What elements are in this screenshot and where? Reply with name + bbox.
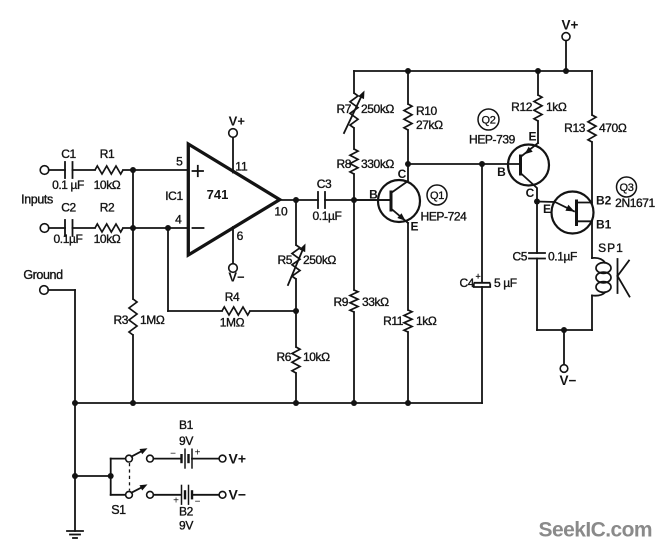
svg-text:B2: B2 [179,505,194,519]
wire bus corner to R13 [591,71,593,115]
wire ground bus bottom [75,402,482,404]
node output junction R5 [293,197,299,203]
svg-text:10: 10 [274,205,288,219]
wire R6 to bus [295,373,297,403]
wire C4 line bottom [481,287,483,403]
wire R4 to R5/R6 node [250,310,296,312]
label Q1 circle [427,185,447,205]
wire R7 to R8 [353,128,355,149]
node bus junction R3 [130,400,136,406]
resistor R6 10k [276,347,330,373]
node junction input1/R3 [130,167,136,173]
svg-text:R2: R2 [100,201,115,215]
svg-text:Q3: Q3 [619,182,633,194]
wire bottom right bus [537,329,592,331]
node bus junction V+ [563,68,569,74]
svg-text:10kΩ: 10kΩ [94,232,121,246]
wire contact2 to B2 [153,494,181,496]
wire B2 to V- terminal [192,494,219,496]
wire op-amp V- pin6 [232,227,234,264]
svg-text:6: 6 [237,229,244,243]
svg-text:C: C [526,186,535,200]
wire R10 to Q1 collector node [407,130,409,164]
svg-text:10kΩ: 10kΩ [303,350,330,364]
svg-text:C: C [398,167,407,181]
svg-text:−: − [195,497,201,508]
svg-text:2N1671: 2N1671 [615,196,655,210]
node bus junction R11 [405,400,411,406]
wire bus to R12 [537,71,539,95]
svg-text:IC1: IC1 [165,189,183,203]
node op-amp V- terminal [229,264,238,273]
wire R2 to op-amp pin4 [123,227,188,229]
capacitor C4 5uF electrolytic [459,272,516,291]
node bus junction R12 [535,68,541,74]
svg-text:741: 741 [207,187,229,202]
transistor Q2 HEP-739 [497,130,549,202]
svg-text:V+: V+ [562,18,579,33]
op-amp minus input symbol [193,227,204,229]
wire B1 down to SP1 [591,221,593,258]
svg-text:SeekIC.com: SeekIC.com [539,519,653,542]
op-amp plus input symbol [193,166,204,176]
svg-text:C2: C2 [61,201,76,215]
speaker SP1 armature [618,259,630,297]
capacitor C3 0.1uF [313,177,342,223]
svg-text:0.1µF: 0.1µF [313,209,342,223]
svg-text:0.1µF: 0.1µF [548,250,577,264]
wire R3 to ground bus [132,335,134,403]
op-amp IC1 741 [188,144,279,255]
speaker SP1 coil [592,241,624,296]
svg-text:1MΩ: 1MΩ [140,313,165,327]
wire feedback down from pin4 node [167,228,169,311]
wire ground vertical [74,290,76,531]
svg-text:11: 11 [235,160,248,174]
svg-text:0.1µF: 0.1µF [54,232,83,246]
wire op-amp V+ pin11 [232,137,234,172]
svg-text:B: B [497,165,506,179]
svg-text:9V: 9V [179,434,193,448]
node bus/R10 junction [405,68,411,74]
resistor R9 33k [333,290,389,312]
svg-text:V−: V− [228,270,245,285]
svg-text:250kΩ: 250kΩ [361,102,394,116]
wire ground to switch [75,475,111,477]
wire ground terminal right [48,289,75,291]
svg-text:5 µF: 5 µF [494,276,517,290]
svg-text:−: − [170,449,176,460]
wire Q1 emitter down to R11 [407,223,409,310]
node R4/R5/R6 junction [293,308,299,314]
svg-text:R12: R12 [511,100,533,114]
switch S1 gang dashed link [129,463,131,491]
svg-text:R6: R6 [276,350,291,364]
resistor R10 27k [404,104,443,132]
node switch feed junction [72,473,78,479]
wire R11 to bus [407,332,409,403]
node C4 tap junction [479,161,485,167]
node Q2 collector junction [534,199,540,205]
wire R8 to base node [353,174,355,200]
svg-text:V−: V− [229,486,247,502]
ground earth symbol [67,531,83,538]
svg-text:C4: C4 [459,276,474,290]
svg-text:250kΩ: 250kΩ [303,253,336,267]
wire C5 to bottom [536,259,538,331]
svg-text:Q2: Q2 [481,115,495,127]
wire op-amp output [280,199,319,201]
resistor R11 1k [383,310,437,332]
node bus junction R9 [351,400,357,406]
switch contact 2 [147,491,154,498]
resistor R4 1M [220,290,250,330]
wire input2 to C2 [49,227,65,229]
svg-text:27kΩ: 27kΩ [416,118,443,132]
battery B1 9V [170,418,201,469]
node battery V- terminal [219,491,226,498]
svg-text:+: + [476,272,481,282]
node V- junction [561,327,567,333]
svg-text:9V: 9V [179,519,193,533]
node switch common junction [108,473,114,479]
label Q2 circle [478,109,499,130]
resistor R8 330k [336,149,394,174]
wire stub to pole1 [111,458,126,460]
wire input1 to C1 [49,169,65,171]
wire C3 to Q1 base [325,199,390,201]
wire stub to pole2 [111,494,126,496]
svg-text:C3: C3 [317,177,332,191]
wire switch common vertical [110,459,112,495]
resistor R13 470 [564,115,627,142]
svg-text:1kΩ: 1kΩ [416,314,437,328]
wire C4 line top [481,164,483,282]
resistor R2 10k [94,201,123,247]
wire top supply bus [354,70,592,72]
wire B1 to V+ terminal [192,458,219,460]
svg-text:1MΩ: 1MΩ [220,316,245,330]
svg-text:C5: C5 [512,250,527,264]
capacitor C2 0.1uF [54,201,83,247]
svg-text:R13: R13 [564,121,586,135]
wire vertical R3 chain top [132,170,134,299]
svg-text:SP1: SP1 [598,241,624,255]
svg-text:V+: V+ [229,114,246,129]
resistor R1 10k [94,147,123,192]
svg-text:10kΩ: 10kΩ [94,178,121,192]
wire Q2 collector node down to C5 [536,202,538,254]
svg-text:R8: R8 [336,157,351,171]
node input 1 terminal [40,166,49,175]
node battery V+ terminal [219,455,226,462]
svg-text:B1: B1 [179,418,194,432]
wire R12 to Q2 emitter [537,121,539,143]
wire V+ to bus [565,41,567,71]
resistor R12 1k [511,95,567,121]
svg-text:C1: C1 [61,147,76,161]
resistor R3 1M [113,299,164,335]
node Q1 collector junction [405,161,411,167]
svg-text:4: 4 [175,213,182,227]
svg-text:S1: S1 [111,503,126,517]
wire V- drop [563,330,565,365]
wire R1 to op-amp pin5 [123,169,188,171]
svg-text:0.1 µF: 0.1 µF [52,178,84,192]
svg-text:1kΩ: 1kΩ [546,100,567,114]
node junction input2/R3 line [130,225,136,231]
svg-text:330kΩ: 330kΩ [361,157,394,171]
transistor Q3 2N1671 unijunction [537,192,612,234]
svg-text:+: + [195,448,201,459]
svg-text:R4: R4 [225,290,240,304]
svg-text:R9: R9 [333,295,348,309]
node bus junction R6 [293,400,299,406]
svg-text:5: 5 [176,155,183,169]
node V+ top terminal [562,33,570,41]
wire R9 to bus [353,312,355,403]
wire C1 to R1 [73,169,96,171]
svg-text:HEP-739: HEP-739 [469,133,516,147]
node bus junction ground line [72,400,78,406]
svg-text:E: E [543,202,551,216]
svg-text:Q1: Q1 [430,190,444,202]
node op-amp V+ terminal [229,129,238,138]
node ground terminal [40,286,49,295]
wire base node down to R9 [353,200,355,290]
wire Q1 collector to Q2 base [408,163,521,165]
svg-text:HEP-724: HEP-724 [421,210,468,224]
capacitor C5 0.1uF [512,250,577,264]
wire bus down to R7 [353,71,355,93]
svg-text:Inputs: Inputs [21,193,53,207]
svg-text:V+: V+ [229,450,247,466]
resistor R7 250k variable [336,91,394,134]
svg-text:R3: R3 [113,313,128,327]
wire bus down to R10 [407,71,409,104]
svg-text:B1: B1 [596,218,612,232]
svg-text:R1: R1 [100,147,115,161]
svg-text:B: B [369,188,378,202]
svg-text:B2: B2 [596,194,612,208]
svg-text:E: E [528,130,536,144]
node V- bottom terminal [560,365,568,373]
switch contact 1 [147,455,154,462]
svg-text:E: E [410,220,418,234]
capacitor C1 0.1uF [52,147,84,192]
svg-text:Ground: Ground [23,268,63,282]
wire contact1 to B1 [153,458,181,460]
svg-text:470Ω: 470Ω [599,121,627,135]
svg-text:R11: R11 [383,314,404,328]
wire C2 to R2 [73,227,96,229]
resistor R5 250k variable [277,244,336,286]
node junction feedback tap [165,225,171,231]
wire feedback to R4 [168,310,222,312]
switch S1 pole 1 [126,448,148,462]
node input 2 terminal [40,224,49,233]
svg-text:R7: R7 [336,102,351,116]
wire R5 to R4 node [295,279,297,347]
wire R13 down to Q3 B2 [591,142,593,203]
transistor Q1 HEP-724 [354,164,420,234]
svg-text:R10: R10 [416,104,438,118]
svg-text:33kΩ: 33kΩ [362,295,389,309]
svg-text:R5: R5 [277,253,292,267]
node junction R7/R8/R9 base [351,197,357,203]
wire output node down to R5 [295,200,297,245]
svg-text:V−: V− [560,373,577,388]
switch S1 pole 2 [126,484,148,498]
battery B2 9V [173,485,201,533]
wire SP1 to bottom [591,296,593,331]
label Q3 circle [617,177,637,197]
